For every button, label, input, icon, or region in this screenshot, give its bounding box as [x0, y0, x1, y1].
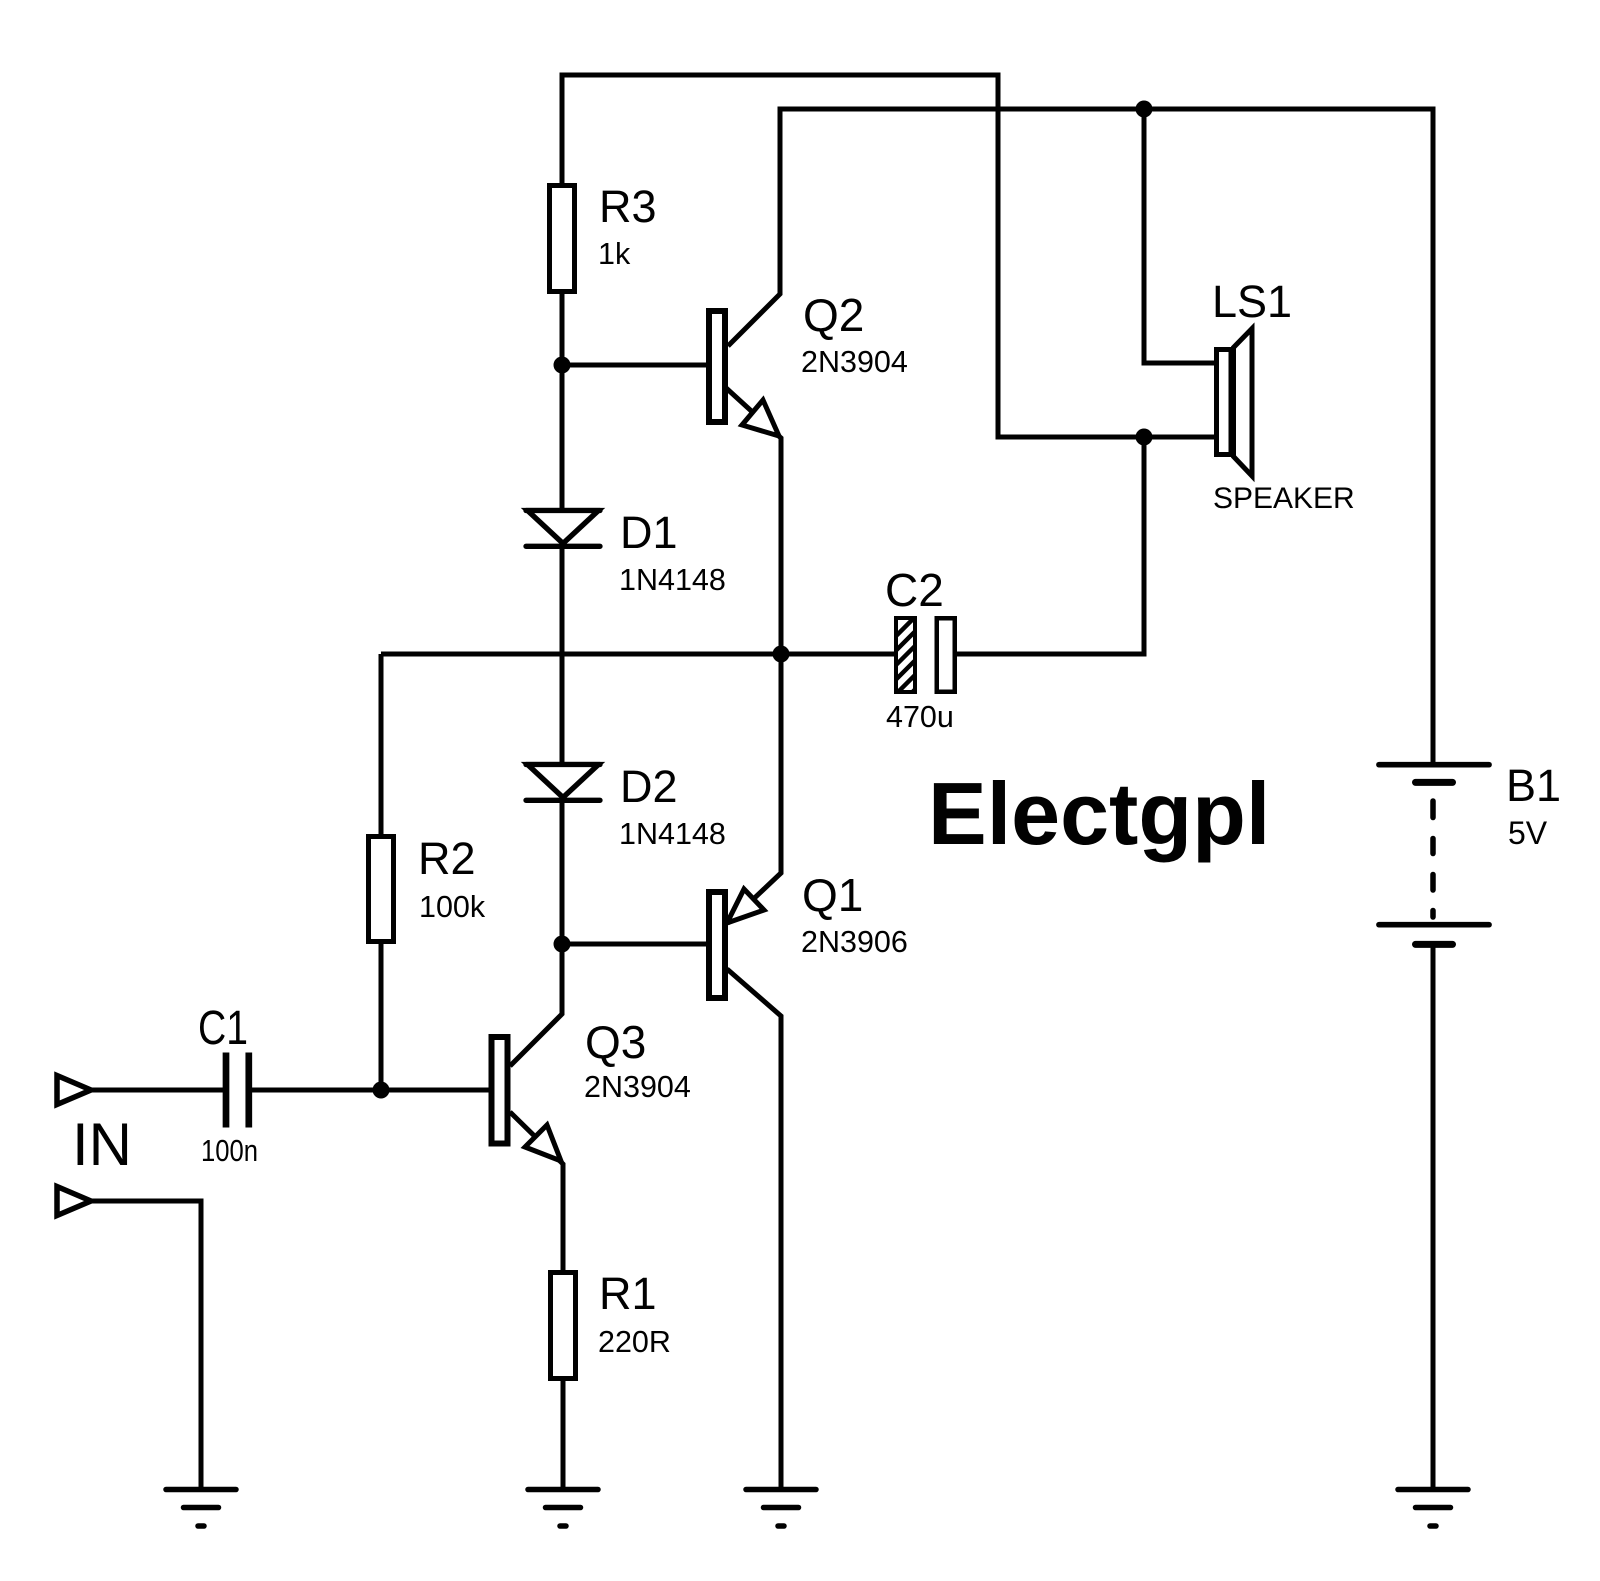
- svg-text:220R: 220R: [598, 1325, 671, 1359]
- svg-text:100n: 100n: [201, 1134, 258, 1168]
- svg-text:C1: C1: [198, 1002, 248, 1055]
- svg-text:R1: R1: [599, 1268, 657, 1319]
- svg-text:1k: 1k: [598, 237, 631, 271]
- svg-text:2N3904: 2N3904: [801, 345, 908, 379]
- svg-text:5V: 5V: [1508, 815, 1548, 851]
- svg-text:1N4148: 1N4148: [619, 563, 726, 597]
- svg-text:IN: IN: [72, 1111, 132, 1178]
- svg-text:Electgpl: Electgpl: [928, 764, 1270, 863]
- svg-text:SPEAKER: SPEAKER: [1213, 482, 1355, 515]
- svg-text:470u: 470u: [886, 700, 954, 734]
- svg-text:2N3906: 2N3906: [801, 925, 908, 959]
- svg-text:100k: 100k: [419, 890, 486, 924]
- svg-text:2N3904: 2N3904: [584, 1070, 691, 1104]
- svg-text:B1: B1: [1506, 760, 1561, 811]
- svg-text:1N4148: 1N4148: [619, 817, 726, 851]
- svg-text:D1: D1: [620, 507, 678, 558]
- svg-text:LS1: LS1: [1212, 276, 1292, 327]
- svg-text:C2: C2: [885, 564, 944, 616]
- svg-text:D2: D2: [620, 761, 678, 812]
- svg-text:R2: R2: [418, 833, 476, 884]
- svg-text:Q2: Q2: [803, 289, 864, 341]
- svg-text:Q1: Q1: [802, 869, 863, 921]
- svg-text:Q3: Q3: [585, 1016, 646, 1068]
- svg-text:R3: R3: [599, 181, 657, 232]
